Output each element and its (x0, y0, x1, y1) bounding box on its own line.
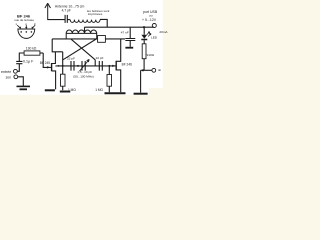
label minus dash (158, 69, 160, 71)
node dot C (108, 65, 110, 67)
svg-text:47 nF: 47 nF (121, 31, 129, 35)
labels (1, 4, 168, 92)
wire X diagonal B (63, 39, 97, 74)
antenna ANT1 (45, 3, 51, 19)
wire tank left corner (52, 39, 63, 52)
svg-text:0,1µ F: 0,1µ F (23, 60, 34, 64)
wire C1 to L1 (67, 19, 70, 21)
wire L1 to rail (100, 19, 107, 27)
wire 130k right to gate (40, 52, 43, 54)
wire output to ground (140, 70, 142, 92)
inductor L1 (70, 20, 100, 23)
transistor Q2 BF246 (115, 61, 117, 71)
wire output node (141, 69, 152, 71)
svg-text:entrée: entrée (1, 70, 11, 74)
node dot output (142, 69, 144, 71)
wire R5 stub (108, 66, 110, 92)
inductor L2 (66, 30, 97, 39)
svg-text:22 pF: 22 pF (96, 56, 104, 60)
svg-text:1 MΩ: 1 MΩ (68, 88, 76, 92)
trimmer capacitor CV1 (82, 61, 85, 71)
svg-text:vue de la base: vue de la base (14, 18, 34, 22)
svg-text:910Ω: 910Ω (147, 53, 155, 57)
svg-text:22 pF: 22 pF (67, 56, 75, 60)
wire R1 to output node (143, 59, 145, 71)
wire tank bottom (52, 38, 97, 40)
terminal USB (152, 24, 156, 28)
resistor R1 910 (142, 44, 146, 59)
svg-text:+ 5...12V: + 5...12V (142, 18, 157, 22)
pin arrows (17, 25, 35, 28)
resistor R4 1M (61, 74, 66, 86)
terminal output (152, 68, 156, 72)
terminal entree (14, 69, 18, 73)
package outline BF246 case (18, 29, 35, 38)
capacitor C4 0,1uF (16, 61, 22, 63)
ground R4 (60, 91, 71, 93)
wire C4 to entree (17, 64, 19, 72)
schematic white area (0, 0, 163, 95)
ground son (17, 85, 31, 87)
capacitor C5 47nF (129, 27, 131, 38)
capacitor C2 22pF (71, 61, 74, 71)
svg-text:BF 245: BF 245 (40, 61, 51, 65)
ground Q1 source (45, 89, 55, 91)
wire L2 center tap (84, 27, 86, 33)
capacitor C1 4,7pF (65, 15, 67, 23)
wire R2 to Q2 drain node (105, 38, 125, 40)
supply rail (85, 26, 155, 28)
wire son to ground (18, 77, 24, 86)
resistor R3 130k (24, 51, 40, 55)
svg-text:20mA: 20mA (159, 30, 168, 34)
wire X diagonal A (71, 39, 95, 66)
node dot D (58, 65, 60, 67)
wire R4 to ground (62, 86, 64, 90)
svg-text:BF 246: BF 246 (122, 62, 133, 66)
wire 130k left to C4 (19, 53, 24, 61)
resistor R5 1M (107, 75, 112, 87)
svg-text:ou: ou (149, 13, 153, 17)
svg-text:130 kΩ: 130 kΩ (26, 46, 37, 50)
svg-text:1 MΩ: 1 MΩ (95, 88, 103, 92)
LED D1 (143, 27, 145, 34)
page background (0, 0, 171, 100)
node dot rail LED (143, 26, 145, 28)
wire gate line level2 (55, 65, 116, 67)
svg-text:LED: LED (151, 36, 158, 40)
node dot A (62, 65, 64, 67)
svg-text:4,7 pF: 4,7 pF (62, 9, 71, 13)
svg-text:imprimées: imprimées (88, 12, 103, 16)
transistor Q1 BF245 (51, 63, 53, 71)
ground Q2 and R5 (105, 92, 126, 94)
resistor R2 feed (98, 36, 106, 43)
ground output (134, 93, 148, 95)
ground C5 (125, 47, 133, 49)
svg-text:son: son (6, 75, 12, 79)
node dot B (77, 65, 79, 67)
svg-text:(50...100 MHz): (50...100 MHz) (73, 74, 93, 78)
capacitor C3 22pF (99, 61, 102, 71)
wire antenna to C1 (47, 19, 65, 21)
terminal son (14, 75, 18, 79)
